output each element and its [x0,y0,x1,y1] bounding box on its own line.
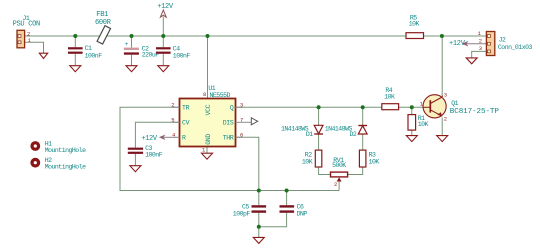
resistor R5 [406,15,424,39]
junction C6 bottom [285,189,289,193]
svg-text:8: 8 [203,91,206,98]
svg-text:BC817-25-TP: BC817-25-TP [450,108,500,116]
svg-text:3: 3 [479,45,482,52]
wire C3 to ground [134,154,136,166]
svg-text:1N4148WS: 1N4148WS [325,125,353,132]
ferrite bead FB1 [95,11,112,44]
capacitor C5 [233,203,266,217]
ground C2 [126,66,137,72]
ground U1 GND [202,153,213,159]
junction U1 VCC rail [206,34,210,38]
svg-text:10K: 10K [369,159,380,166]
svg-text:2: 2 [334,181,337,188]
connector J1 [13,15,40,48]
svg-text:MountingHole: MountingHole [45,147,86,154]
svg-text:U1: U1 [208,85,215,92]
svg-text:+12V: +12V [157,3,174,11]
svg-text:10K: 10K [302,159,313,166]
svg-text:100nF: 100nF [145,152,163,159]
svg-text:+12V: +12V [449,40,466,48]
junction C5 ground node [257,225,261,229]
wire C2 stub [131,36,133,48]
svg-text:D2: D2 [350,131,357,138]
junction C1 rail [73,34,77,38]
capacitor C3 [128,145,163,159]
svg-text:C1: C1 [85,45,92,52]
diode D1 [281,125,323,138]
wire C4 to ground [162,54,164,66]
svg-text:6: 6 [240,132,243,139]
resistor R2 [302,150,322,167]
wire Q1 emitter to ground [441,118,443,136]
svg-text:2: 2 [171,102,174,109]
ground C4 [158,66,169,72]
resistor R4 [382,87,399,110]
svg-text:Conn_01x03: Conn_01x03 [498,44,533,51]
junction D2 mid [361,105,365,109]
wire C5 C6 bottom node [258,213,260,238]
svg-text:+: + [125,41,129,48]
wire +12V power stub [162,17,164,37]
ground C3 [130,166,141,172]
op-amp U1 NE555D body [180,85,236,154]
svg-text:C4: C4 [173,45,180,52]
svg-text:C5: C5 [242,203,249,210]
svg-text:D1: D1 [306,131,313,138]
wire THR down [236,137,259,190]
svg-text:100nF: 100nF [85,52,103,59]
svg-text:500K: 500K [332,162,346,169]
svg-text:100pF: 100pF [233,211,251,218]
svg-text:10K: 10K [384,93,395,100]
svg-text:DNP: DNP [297,211,308,218]
capacitor C1 [68,45,102,59]
wire RV1 wiper down [338,182,340,191]
wire R1 to ground [411,130,413,136]
ground Q1 emitter [437,136,448,142]
svg-text:Q: Q [230,105,234,112]
ground C5 C6 [253,237,264,243]
junction collector rail [440,34,444,38]
connector J2 [478,30,533,56]
svg-text:+12V: +12V [141,135,158,143]
wire J2 pin2 stub [465,43,486,45]
wire C5 stub top [258,191,260,206]
svg-text:VCC: VCC [205,104,212,115]
svg-text:FB1: FB1 [96,11,108,19]
svg-text:THR: THR [223,135,234,142]
svg-text:NE555D: NE555D [210,92,231,99]
resistor R3 [359,150,379,167]
svg-text:1N4148WS: 1N4148WS [281,125,309,132]
wire C4 stub [162,36,164,47]
svg-text:2: 2 [479,38,482,45]
ground J1 pin1 [39,53,47,58]
svg-text:PSU CON: PSU CON [13,21,40,29]
wire R3 to RV1 [348,166,363,174]
wire C2 to ground [131,55,133,66]
svg-text:R: R [182,135,186,142]
svg-text:3: 3 [240,102,243,109]
wire C6 bottom jog [259,213,287,227]
svg-text:2: 2 [444,116,447,123]
diode D2 [325,125,367,138]
wire U1 GND stub [206,147,208,154]
svg-text:5: 5 [171,117,174,124]
wire C1 stub [74,36,76,47]
svg-text:7: 7 [240,117,243,124]
wire collector drop from rail [441,36,443,95]
mounting hole H2 [30,157,86,171]
junction THR C5 bottom [257,189,261,193]
transistor Q1 [420,91,500,122]
wire J2 pin3 to ground [472,51,487,58]
wire top +12V rail [25,35,487,37]
resistor R1 [408,115,429,131]
ground J2 pin3 [466,58,477,64]
capacitor C2 polarized [124,41,159,59]
ground C1 [70,66,81,72]
wire J1 pin1 to ground [25,42,44,53]
svg-text:600R: 600R [95,19,112,27]
power +12V at U1 pin4 [141,135,165,143]
junction R1 mid [410,105,414,109]
U1 pin names [182,104,234,145]
svg-text:Q1: Q1 [451,100,458,107]
capacitor C6 [280,203,308,217]
junction C2 rail [130,34,134,38]
junction C4 +12V rail [161,34,165,38]
label arrow DIS unconnected [251,118,257,125]
svg-text:10K: 10K [418,121,429,128]
svg-text:3: 3 [444,91,447,98]
svg-text:DIS: DIS [223,120,234,127]
wire D2 column [362,107,364,149]
svg-text:TR: TR [182,105,190,112]
U1 pin numbers [171,102,243,139]
wire CV to C3 [135,122,179,147]
wire C6 stub top [286,191,288,206]
svg-text:C6: C6 [297,203,304,210]
wire Q output mid [236,106,431,108]
svg-text:100nF: 100nF [173,52,191,59]
wire R1 drop [411,107,413,114]
wire U1 VCC drop [207,36,209,99]
power +12V top [157,3,174,17]
svg-text:10K: 10K [409,21,420,28]
wire D1 column [318,107,320,149]
wire R2 to RV1 [319,166,331,174]
svg-text:J2: J2 [499,37,506,44]
svg-text:GND: GND [205,134,212,145]
mounting hole H1 [30,140,86,154]
capacitor C4 [156,45,190,59]
power +12V at J2 pin2 [449,40,468,48]
U1 pin stubs [164,107,251,137]
wire TR loop [120,107,339,190]
wire C1 to ground [74,54,76,66]
ground R1 [406,136,417,142]
svg-text:MountingHole: MountingHole [45,164,86,171]
junction D1 mid [317,105,321,109]
potentiometer RV1 [331,157,348,188]
svg-text:CV: CV [182,120,190,127]
